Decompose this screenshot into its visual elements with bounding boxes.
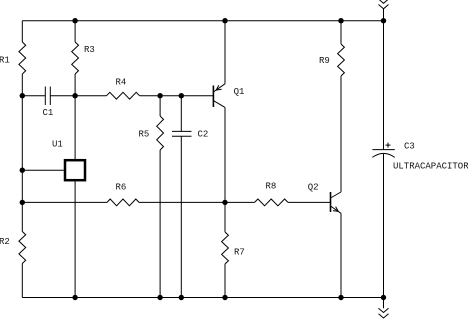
svg-text:U1: U1 (52, 140, 63, 150)
wire C2 column (180, 96, 182, 298)
resistor R3 (72, 42, 95, 74)
wire Q2 emitter to bottom rail (340, 213, 342, 297)
wire R9 to Q2 collector (340, 76, 342, 192)
node low rail / left vertical (20, 200, 25, 205)
wire bottom rail (22, 297, 383, 299)
wire low rail: R8 to Q2 base (288, 201, 331, 203)
svg-text:R5: R5 (139, 129, 150, 139)
wire Q1 emitter to low rail (224, 107, 226, 202)
svg-text:R2: R2 (0, 237, 10, 247)
svg-text:C1: C1 (43, 108, 54, 118)
capacitor C2 (172, 130, 208, 140)
node bottom rail / U1 column (72, 295, 77, 300)
node bottom rail / Q2 emitter (338, 295, 343, 300)
wire right vertical top (383, 9, 385, 150)
node top rail / right vertical (381, 18, 386, 23)
node top rail / R3 column (72, 18, 77, 23)
resistor R4 (107, 78, 140, 100)
svg-text:R7: R7 (234, 247, 245, 257)
svg-text:Q2: Q2 (308, 183, 319, 193)
svg-text:R9: R9 (319, 56, 330, 66)
wire R5 column (159, 96, 161, 298)
resistor R2 (0, 232, 26, 264)
node U1 lead / left vertical (20, 168, 25, 173)
node top rail / R9 (338, 18, 343, 23)
node mid rail / C2 (179, 93, 184, 98)
svg-text:R4: R4 (116, 78, 127, 88)
label ULTRACAPACITOR (393, 161, 468, 171)
resistor R9 (319, 44, 344, 76)
resistor R6 (107, 183, 139, 206)
capacitor C3 (polarized ultracapacitor) (372, 141, 414, 157)
wire left vertical (21, 21, 23, 298)
wire Q1 collector to top rail (224, 21, 226, 84)
resistor R1 (0, 42, 26, 74)
node bottom rail / R7 (222, 295, 227, 300)
wire R9 top lead (340, 21, 342, 44)
node low rail / Q1-R7 (222, 200, 227, 205)
IC U1 (52, 140, 85, 181)
transistor Q2 (NPN) (308, 183, 341, 214)
wire low rail: left vertical to R6 (22, 201, 107, 203)
svg-text:R6: R6 (116, 183, 127, 193)
wire U1 left lead (22, 169, 64, 171)
node mid rail / left vertical (20, 93, 25, 98)
wire mid rail: C1 to R4 (50, 95, 106, 97)
svg-text:C2: C2 (198, 130, 209, 140)
node mid rail / R3 column (72, 93, 77, 98)
power symbol top (double chevron) (379, 0, 389, 9)
ground symbol bottom (double chevron) (379, 298, 389, 319)
svg-text:R8: R8 (266, 182, 277, 192)
node bottom rail / R5 (157, 295, 162, 300)
wire R7 leads (224, 202, 226, 297)
wire right vertical bottom (383, 154, 385, 298)
node mid rail / R5 (157, 93, 162, 98)
capacitor C1 (43, 87, 54, 119)
resistor R5 (139, 116, 164, 150)
svg-text:R1: R1 (0, 56, 10, 66)
svg-text:C3: C3 (404, 141, 415, 151)
node bottom rail / right vertical (381, 295, 386, 300)
svg-text:R3: R3 (84, 45, 95, 55)
wire top rail (22, 20, 383, 22)
resistor R8 (255, 182, 289, 206)
node bottom rail / C2 (179, 295, 184, 300)
wire mid rail: left vertical to C1 (22, 95, 45, 97)
wire low rail: R6 to R8 (139, 201, 255, 203)
wire mid rail: R4 to Q1 base (140, 95, 214, 97)
svg-text:ULTRACAPACITOR: ULTRACAPACITOR (393, 161, 468, 171)
wire R3 / U1 column (74, 21, 76, 298)
svg-text:Q1: Q1 (234, 87, 245, 97)
transistor Q1 (PNP) (213, 84, 244, 108)
resistor R7 (222, 232, 245, 264)
node top rail / Q1 collector (222, 18, 227, 23)
